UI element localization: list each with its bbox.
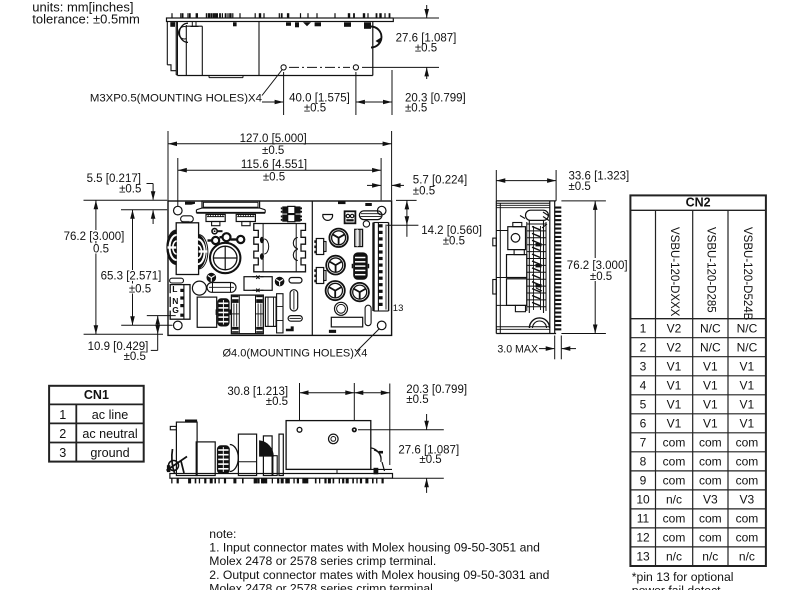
- svg-text:tolerance: ±0.5mm: tolerance: ±0.5mm: [32, 11, 140, 26]
- svg-text:N/C: N/C: [700, 341, 721, 355]
- svg-text:n/c: n/c: [666, 550, 682, 564]
- svg-text:com: com: [699, 455, 722, 469]
- svg-text:N/C: N/C: [737, 341, 758, 355]
- svg-text:VSBU-120-DXXX: VSBU-120-DXXX: [668, 227, 680, 317]
- svg-text:ac line: ac line: [92, 408, 128, 422]
- svg-text:13: 13: [393, 303, 404, 314]
- svg-text:V1: V1: [667, 398, 682, 412]
- svg-text:±0.5: ±0.5: [415, 43, 437, 55]
- svg-text:note:: note:: [209, 527, 236, 541]
- svg-text:±0.5: ±0.5: [124, 351, 146, 363]
- svg-text:com: com: [736, 474, 759, 488]
- svg-text:Ø4.0(MOUNTING HOLES)X4: Ø4.0(MOUNTING HOLES)X4: [223, 348, 368, 360]
- svg-text:±0.5: ±0.5: [419, 454, 441, 466]
- svg-text:com: com: [699, 531, 722, 545]
- svg-text:1. Input connector mates with: 1. Input connector mates with Molex hous…: [209, 541, 540, 555]
- svg-text:76.2 [3.000]: 76.2 [3.000]: [64, 231, 125, 243]
- svg-text:V2: V2: [667, 322, 682, 336]
- svg-text:V3: V3: [740, 493, 755, 507]
- svg-text:115.6 [4.551]: 115.6 [4.551]: [241, 159, 307, 171]
- svg-text:Molex 2478 or 2578 series crim: Molex 2478 or 2578 series crimp terminal…: [209, 582, 436, 590]
- svg-text:com: com: [699, 436, 722, 450]
- svg-text:±0.5: ±0.5: [443, 236, 465, 248]
- svg-text:±0.5: ±0.5: [406, 394, 428, 406]
- svg-text:2: 2: [640, 341, 647, 355]
- svg-text:1: 1: [59, 408, 66, 422]
- svg-text:V1: V1: [667, 417, 682, 431]
- svg-text:n/c: n/c: [702, 550, 718, 564]
- svg-text:±0.5: ±0.5: [266, 396, 288, 408]
- svg-text:N/C: N/C: [700, 322, 721, 336]
- svg-text:com: com: [663, 474, 686, 488]
- svg-text:V1: V1: [740, 417, 755, 431]
- svg-text:com: com: [663, 531, 686, 545]
- svg-text:V1: V1: [703, 417, 718, 431]
- svg-text:0.5: 0.5: [93, 243, 109, 255]
- svg-text:±0.5: ±0.5: [263, 171, 285, 183]
- svg-text:±0.5: ±0.5: [129, 284, 151, 296]
- svg-text:M3XP0.5(MOUNTING HOLES)X4: M3XP0.5(MOUNTING HOLES)X4: [90, 93, 262, 105]
- svg-text:65.3 [2.571]: 65.3 [2.571]: [101, 271, 162, 283]
- svg-text:8: 8: [640, 455, 647, 469]
- svg-text:V1: V1: [667, 379, 682, 393]
- svg-text:1: 1: [640, 322, 647, 336]
- svg-text:V1: V1: [740, 398, 755, 412]
- svg-text:com: com: [736, 455, 759, 469]
- svg-text:12: 12: [636, 531, 650, 545]
- svg-text:7: 7: [640, 436, 647, 450]
- svg-text:n/c: n/c: [739, 550, 755, 564]
- svg-text:3: 3: [59, 446, 66, 460]
- svg-text:com: com: [663, 436, 686, 450]
- svg-text:V2: V2: [667, 341, 682, 355]
- svg-text:n/c: n/c: [666, 493, 682, 507]
- svg-text:com: com: [699, 474, 722, 488]
- svg-text:6: 6: [640, 417, 647, 431]
- svg-text:5: 5: [640, 398, 647, 412]
- svg-text:127.0 [5.000]: 127.0 [5.000]: [240, 133, 307, 145]
- svg-text:3: 3: [640, 360, 647, 374]
- svg-text:V1: V1: [740, 379, 755, 393]
- svg-text:V1: V1: [703, 360, 718, 374]
- svg-text:com: com: [663, 512, 686, 526]
- svg-text:V3: V3: [703, 493, 718, 507]
- svg-text:Molex 2478 or 2578 series crim: Molex 2478 or 2578 series crimp terminal…: [209, 554, 436, 568]
- svg-text:±0.5: ±0.5: [304, 103, 326, 115]
- svg-text:com: com: [663, 455, 686, 469]
- svg-text:±0.5: ±0.5: [413, 186, 435, 198]
- svg-text:VSBU-120-D285: VSBU-120-D285: [704, 227, 716, 313]
- svg-text:L: L: [172, 284, 177, 294]
- svg-text:V1: V1: [703, 398, 718, 412]
- svg-text:3.0 MAX: 3.0 MAX: [497, 344, 538, 356]
- svg-text:9: 9: [640, 474, 647, 488]
- svg-text:±0.5: ±0.5: [262, 145, 284, 157]
- svg-text:±0.5: ±0.5: [405, 103, 427, 115]
- svg-text:±0.5: ±0.5: [569, 181, 591, 193]
- svg-text:ac neutral: ac neutral: [82, 427, 137, 441]
- svg-text:±0.5: ±0.5: [119, 183, 141, 195]
- svg-text:com: com: [736, 531, 759, 545]
- svg-text:com: com: [736, 512, 759, 526]
- svg-text:G: G: [172, 305, 179, 315]
- svg-text:N/C: N/C: [737, 322, 758, 336]
- svg-text:*pin 13 for optional: *pin 13 for optional: [632, 570, 734, 584]
- svg-text:11: 11: [637, 512, 650, 526]
- svg-text:76.2 [3.000]: 76.2 [3.000]: [567, 260, 628, 272]
- svg-text:V1: V1: [740, 360, 755, 374]
- svg-text:13: 13: [636, 550, 650, 564]
- svg-text:4: 4: [640, 379, 647, 393]
- svg-text:com: com: [699, 512, 722, 526]
- svg-text:V1: V1: [667, 360, 682, 374]
- svg-text:CN2: CN2: [686, 196, 711, 210]
- svg-text:2. Output connector mates with: 2. Output connector mates with Molex hou…: [209, 568, 549, 582]
- svg-text:ground: ground: [90, 446, 129, 460]
- svg-text:V1: V1: [703, 379, 718, 393]
- svg-text:±0.5: ±0.5: [590, 271, 612, 283]
- svg-text:10: 10: [636, 493, 650, 507]
- svg-text:VSBU-120-D524B: VSBU-120-D524B: [741, 227, 753, 321]
- svg-text:power fail detect: power fail detect: [632, 584, 721, 590]
- svg-text:CN1: CN1: [84, 388, 109, 402]
- svg-text:2: 2: [59, 427, 66, 441]
- svg-text:com: com: [736, 436, 759, 450]
